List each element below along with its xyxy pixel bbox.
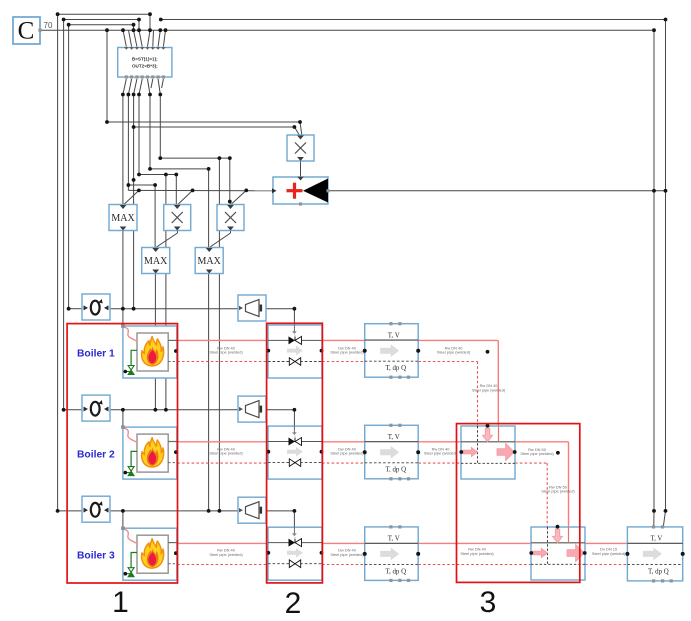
wire: eq out6 x=160.3 branch y=158.1: [159, 95, 161, 159]
multiplier X1: [164, 205, 191, 231]
svg-text:T, V: T, V: [388, 333, 400, 340]
pipe: pipe1 to tee1 supply (L-run): [418, 339, 498, 341]
summer S1 (red plus with printer wedge): [272, 177, 330, 206]
pipe: valve1 to pipe1 supply: [322, 339, 365, 341]
wire: diagonals into equation block top ports: [123, 30, 126, 46]
pipe: pipe3 to tee2 supply: [418, 542, 531, 544]
svg-text:T, V: T, V: [650, 536, 662, 543]
inverter/diverter T3 (triangle block): [238, 497, 266, 523]
node: equation output bus dots: [121, 93, 125, 97]
svg-text:Steel pipe (welded): Steel pipe (welded): [330, 552, 364, 557]
wire: branch y=185 to MAX2: [128, 184, 155, 186]
pipe: tee1 to tee2 supply (L-run): [515, 441, 569, 443]
svg-text:T, V: T, V: [388, 434, 400, 441]
wire: verticals from top lines into equation inputs: [149, 14, 151, 30]
multiplier X0: [287, 135, 314, 161]
wire: row2 control line: [110, 409, 238, 411]
boiler B2 (Type 700): [121, 425, 178, 479]
controller U2 (feedback 0 block): [82, 395, 110, 421]
pipe: valve3 to pipe3 return: [322, 564, 365, 566]
wire: eq out5 x=150 branch y=168.9 to MAX3: [149, 95, 151, 169]
pipe: valve3 to pipe3 supply: [322, 542, 365, 544]
svg-text:T, dp Q: T, dp Q: [385, 467, 406, 474]
wire: eq out1 to MAX1: [122, 95, 124, 205]
wire: diagonal into MAX1: [124, 190, 139, 204]
wire: eq out3 x=133.6 to product input 2 and row1: [133, 95, 135, 309]
node: top bus junction dots: [105, 28, 109, 32]
wire: row3 control line: [110, 510, 238, 512]
svg-text:OUT2=B*3);: OUT2=B*3);: [132, 64, 158, 69]
svg-text:Boiler 1: Boiler 1: [77, 349, 115, 360]
svg-text:MAX: MAX: [144, 256, 168, 267]
wire: C branch x=107 to product block input 1: [106, 30, 108, 122]
group frame 1 (boilers): [67, 324, 177, 583]
pipe: boiler3 return: [177, 564, 268, 566]
wire: X1 output into MAX2: [177, 231, 179, 233]
wire: top feedback line y=19.5 to row2 controller: [64, 19, 139, 21]
svg-text:MAX: MAX: [198, 256, 222, 267]
pipe: valve2 to pipe2 supply: [322, 441, 365, 443]
pipe segment P4 (duct with T,V / T,dp,Q): [625, 525, 684, 582]
tee piece TE2 (flow mixer): [529, 525, 586, 580]
svg-text:Steel pipe (welded): Steel pipe (welded): [437, 350, 471, 355]
svg-text:70: 70: [44, 21, 53, 30]
svg-text:Steel pipe (welded): Steel pipe (welded): [330, 451, 364, 456]
pipe: boiler3 supply to valve3: [178, 542, 269, 544]
wire: row3 inverter output to valve: [266, 510, 294, 512]
wire: top feedback line y=24.7 to row1 controller: [69, 24, 134, 26]
svg-text:Steel pipe (welded): Steel pipe (welded): [330, 350, 364, 355]
svg-text:3: 3: [480, 586, 497, 619]
svg-text:C: C: [18, 18, 35, 45]
wire: constant C output bus y=30.2: [40, 29, 654, 31]
boiler B3 (Type 700): [121, 526, 178, 580]
node: row line dots: [67, 307, 71, 311]
wire: MAX3 output down to row3: [208, 273, 210, 511]
wire: row2 inverter output to valve: [266, 409, 294, 411]
pipe segment P2 (duct with T,V / T,dp,Q): [363, 424, 421, 481]
svg-text:MAX: MAX: [111, 213, 135, 224]
pipe: tee2 to outlet pipe supply: [585, 542, 627, 544]
constant C (set temperature 70): [13, 17, 42, 45]
inverter/diverter T2 (triangle block): [238, 396, 266, 422]
pipe: boiler1 supply to valve1 (red solid): [178, 339, 269, 341]
svg-text:Steel pipe (welded): Steel pipe (welded): [209, 451, 243, 456]
svg-text:Steel pipe (welded): Steel pipe (welded): [520, 451, 554, 456]
wire: X2 output into MAX3: [230, 231, 232, 233]
wire: row3 boiler drop: [122, 511, 124, 528]
svg-text:T, dp Q: T, dp Q: [385, 365, 406, 372]
wire: summer output to right riser: [328, 190, 666, 192]
svg-text:2: 2: [285, 587, 302, 620]
MAX block M3: [195, 248, 223, 274]
wire: right riser x=654 down to outlet pipe: [653, 30, 655, 511]
pipe: valve2 to pipe2 return: [322, 462, 365, 464]
wire: diagonal into X2: [231, 190, 246, 204]
pipe: tee1 to tee2 return (L-run dashed): [515, 462, 547, 464]
MAX block M1: [109, 205, 137, 231]
svg-text:T, dp Q: T, dp Q: [648, 568, 669, 575]
pipe segment P1 (duct with T,V / T,dp,Q): [363, 322, 421, 379]
svg-text:Steel pipe (welded): Steel pipe (welded): [541, 489, 575, 494]
wire: eq out2 to summer bus y=190.4: [127, 95, 129, 191]
svg-text:Steel pipe (welded): Steel pipe (welded): [472, 387, 506, 392]
node: pipe1 run dot: [486, 350, 490, 354]
wire: top line y=19.5 to right riser: [161, 19, 666, 21]
tee piece TE1 (flow mixer): [459, 424, 516, 479]
node: mid distribution dots: [105, 120, 109, 124]
pipe segment P3 (duct with T,V / T,dp,Q): [363, 525, 421, 582]
svg-text:Steel pipe (welded): Steel pipe (welded): [592, 551, 626, 556]
wire: top feedback line y=14.2 to row3 controller: [58, 13, 150, 15]
pipe: boiler2 return: [177, 462, 268, 464]
pipe: boiler1 return from valve1 (red dashed): [177, 361, 268, 363]
svg-text:Steel pipe (welded): Steel pipe (welded): [460, 551, 494, 556]
svg-text:T, dp Q: T, dp Q: [385, 568, 406, 575]
controller U3 (feedback 0 block): [82, 496, 110, 522]
wire: eq out4 x=139 branch y=174.5: [138, 95, 140, 175]
svg-text:Steel pipe (welded): Steel pipe (welded): [424, 451, 458, 456]
pipe: pipe3 to tee2 return: [418, 564, 531, 566]
inverter/diverter T1 (triangle block): [238, 295, 266, 321]
svg-text:Steel pipe (welded): Steel pipe (welded): [209, 552, 243, 557]
wire: diagonal into X1: [178, 190, 193, 204]
pipe: pipe2 to tee1 supply: [418, 441, 461, 443]
group frame 3 (tees): [457, 424, 580, 583]
equation block EQ (controller equations): [118, 47, 172, 79]
pipe: pipe1 to tee1 return (L-run dashed): [418, 361, 477, 363]
svg-text:1: 1: [112, 586, 129, 619]
wire: MAX1 output down to boiler1: [122, 231, 124, 326]
group frame 2 (valves): [267, 323, 323, 583]
pipe: tee2 to outlet pipe return: [585, 564, 627, 566]
svg-text:Boiler 3: Boiler 3: [77, 551, 115, 562]
pipe: boiler2 supply to valve2: [178, 441, 269, 443]
svg-text:B=ST(1)=1);: B=ST(1)=1);: [132, 57, 158, 62]
valve block V1: [266, 325, 323, 379]
controller U1 (feedback 0 block): [82, 294, 110, 320]
valve block V2: [266, 426, 323, 480]
wire: product output into summer: [300, 161, 302, 177]
node: right riser dots: [652, 189, 656, 193]
node: tee1 run dot: [556, 451, 560, 455]
svg-text:T, V: T, V: [388, 536, 400, 543]
multiplier X2: [217, 205, 244, 231]
wire: riser drops into right pipe ports: [653, 511, 655, 527]
wire: row1 control line: [110, 308, 238, 310]
wire: MAX2 output down to row2: [154, 273, 156, 410]
svg-text:Boiler 2: Boiler 2: [77, 450, 115, 461]
valve block V3: [266, 527, 323, 581]
pipe: valve1 to pipe1 return: [322, 361, 365, 363]
MAX block M2: [142, 248, 170, 274]
wire: row2 boiler drop: [122, 410, 124, 427]
svg-text:Steel pipe (welded): Steel pipe (welded): [209, 350, 243, 355]
wire: row1 inverter output to valve: [266, 308, 294, 310]
boiler B1 (Type 700): [121, 324, 178, 378]
wire: equation out stubs to bus dots: [123, 79, 126, 95]
pipe: pipe2 to tee1 return: [418, 462, 461, 464]
